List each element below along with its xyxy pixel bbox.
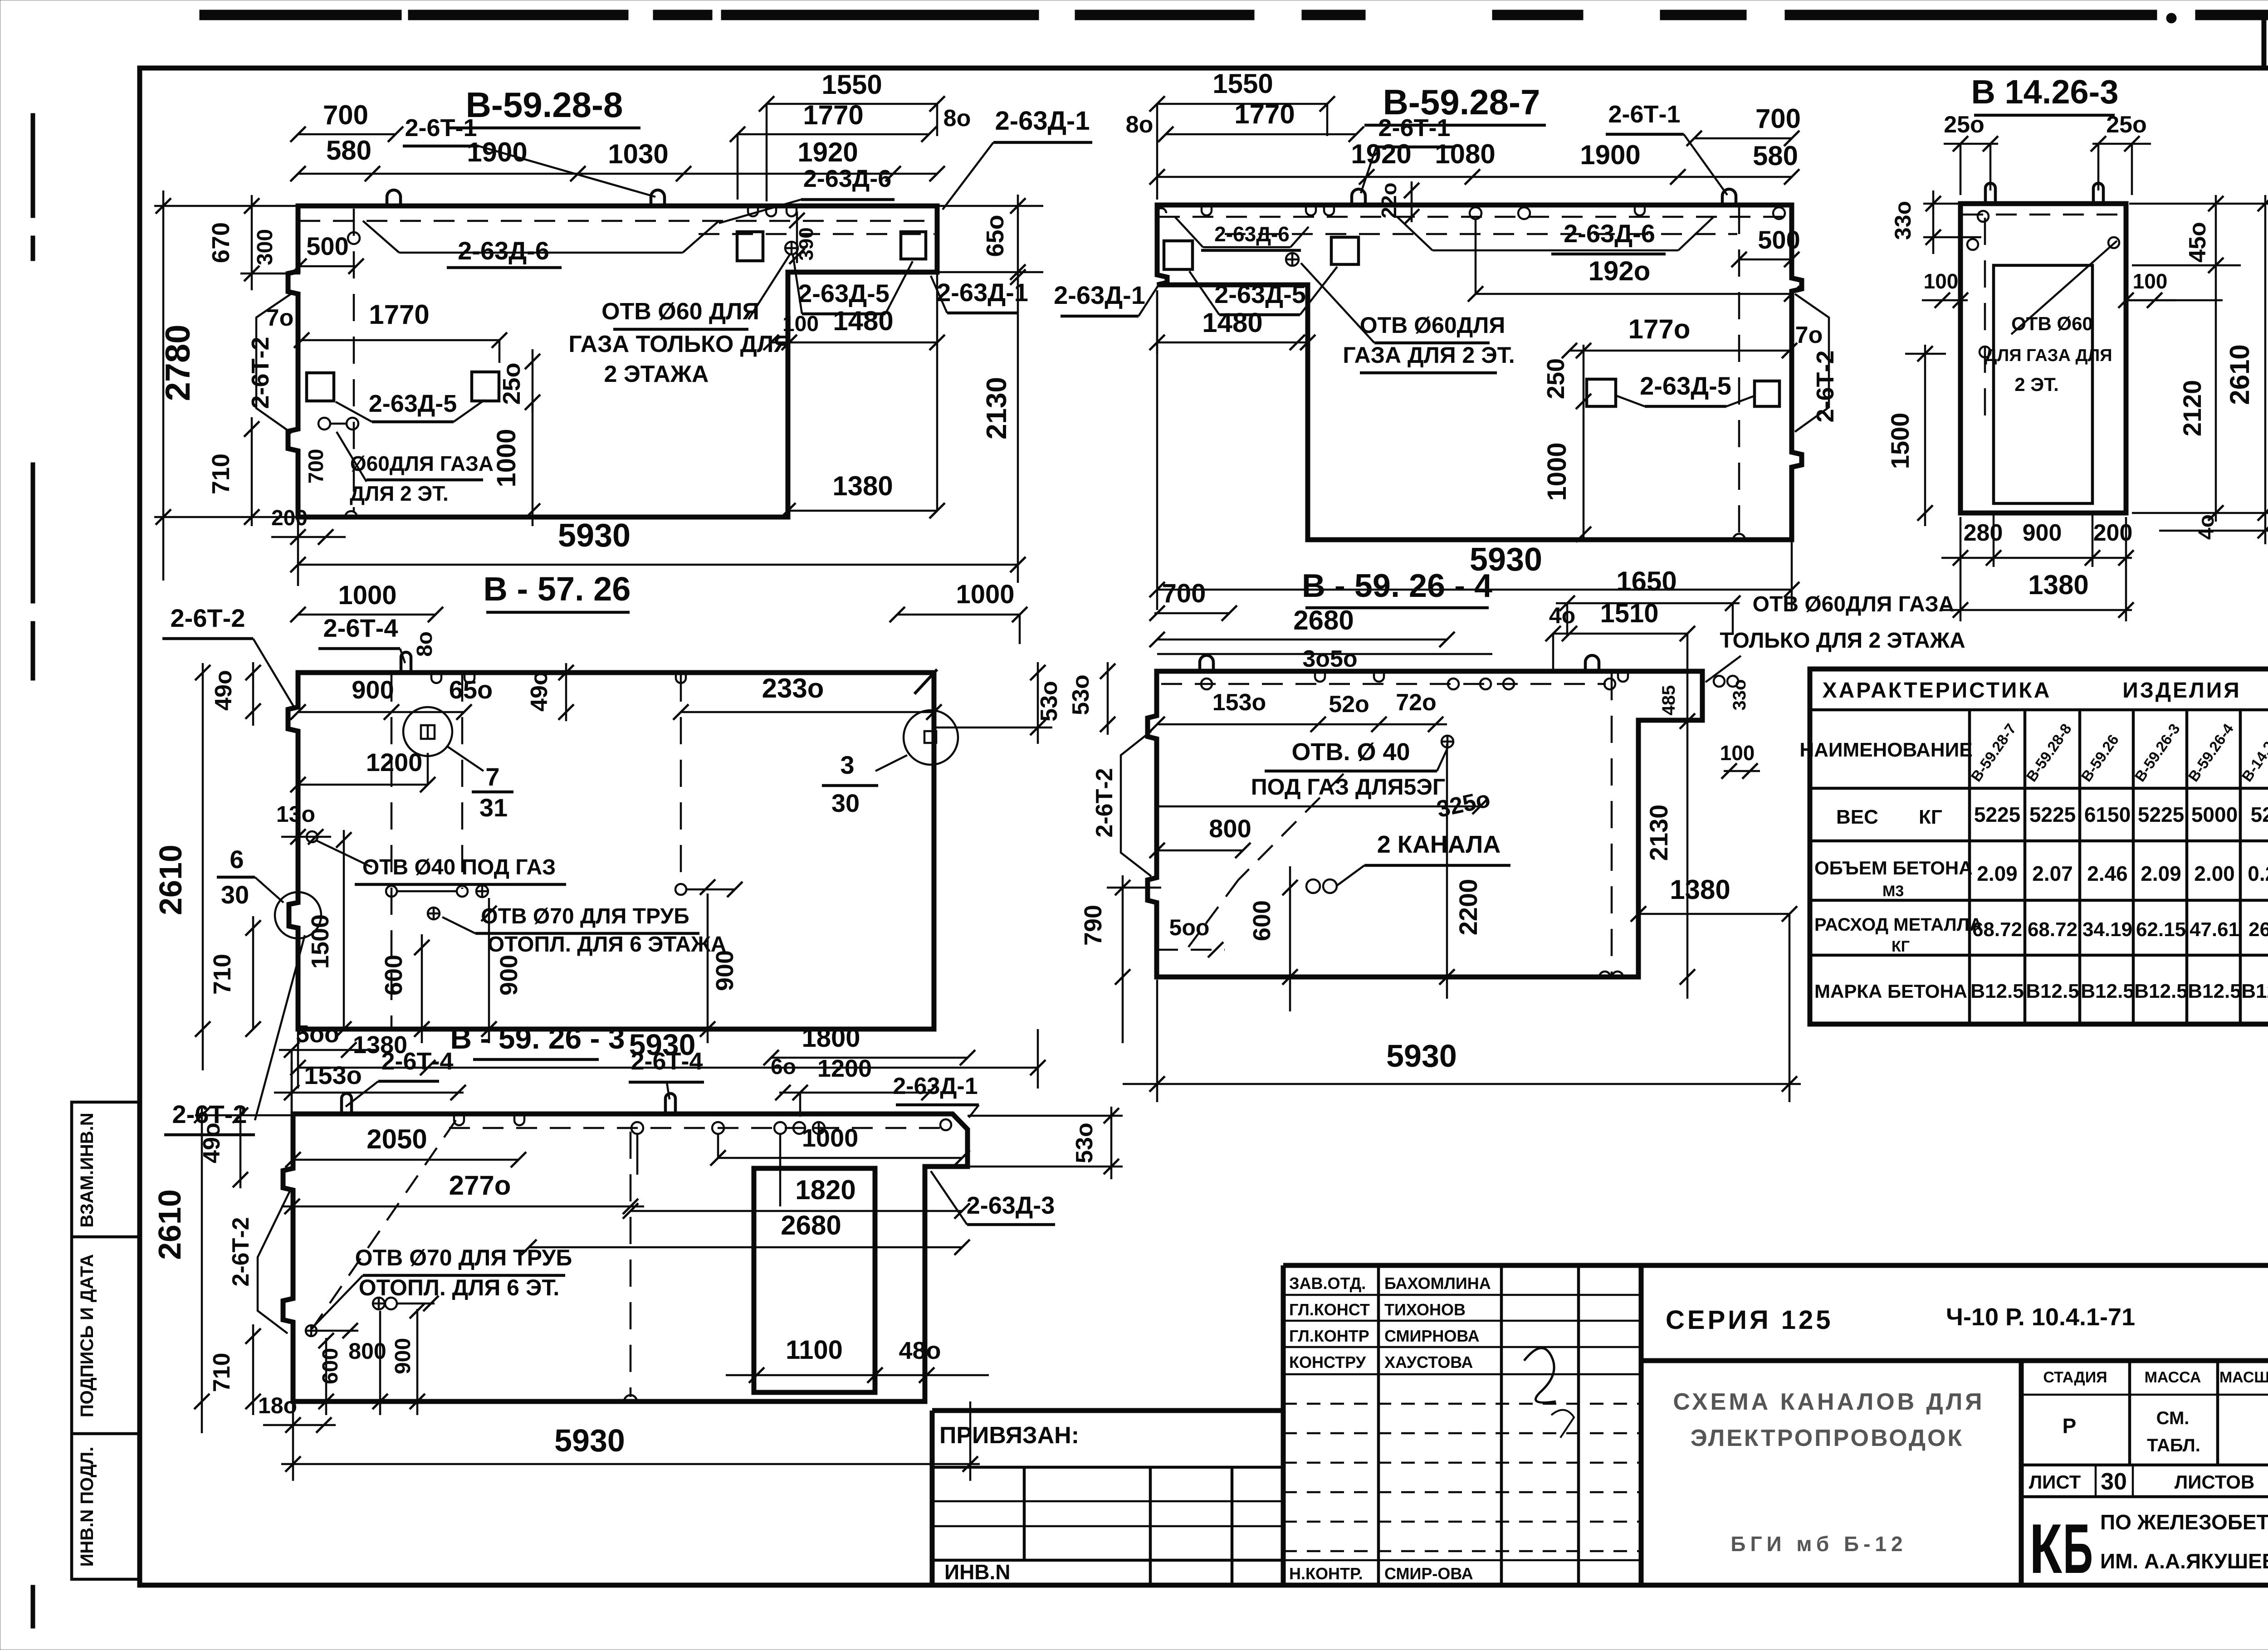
svg-text:В - 59. 26 - 4: В - 59. 26 - 4: [1302, 568, 1492, 604]
svg-text:НАИМЕНОВАНИЕ: НАИМЕНОВАНИЕ: [1799, 739, 1972, 761]
svg-text:2-63Д-5: 2-63Д-5: [1640, 371, 1731, 400]
dim 5930 p6: [281, 1463, 980, 1465]
panel5 dashed vertical: [1611, 673, 1613, 975]
svg-text:ИМ. А.А.ЯКУШЕВА: ИМ. А.А.ЯКУШЕВА: [2100, 1549, 2268, 1573]
svg-text:900: 900: [352, 675, 394, 704]
svg-text:250: 250: [1542, 358, 1569, 399]
svg-text:ЗАВ.ОТД.: ЗАВ.ОТД.: [1289, 1274, 1366, 1293]
dim 1820 p6: [631, 1210, 962, 1212]
square hole 2: [472, 372, 499, 401]
rotated 710 p4: [252, 916, 254, 1029]
panel6 circles on axis: [631, 1122, 643, 1134]
svg-text:22o: 22o: [1377, 182, 1401, 218]
panel3 dashed vertical: [1984, 218, 1986, 429]
rotated 2130 p5: [1686, 717, 1689, 999]
panel3 inner opening: [1994, 265, 2092, 503]
svg-text:СЕРИЯ 125: СЕРИЯ 125: [1666, 1305, 1833, 1335]
left dim 2780: [154, 205, 299, 207]
svg-text:2-6Т-4: 2-6Т-4: [323, 614, 398, 642]
svg-text:670: 670: [207, 222, 235, 263]
svg-text:500: 500: [306, 232, 348, 260]
panel5 half circles bottom: [1599, 971, 1610, 977]
svg-text:ХАУСТОВА: ХАУСТОВА: [1384, 1353, 1473, 1372]
square hole 1: [307, 373, 334, 401]
svg-text:1000: 1000: [802, 1123, 859, 1152]
dim 250 left p3: [1944, 143, 1998, 145]
panel2 dashed axis: [1159, 216, 1789, 218]
svg-text:1770: 1770: [803, 100, 863, 130]
svg-text:ТИХОНОВ: ТИХОНОВ: [1384, 1300, 1466, 1319]
panel5 hooks: [1200, 655, 1213, 671]
svg-text:65o: 65o: [982, 215, 1009, 257]
svg-text:62.15: 62.15: [2136, 918, 2186, 941]
panel4 outline: [288, 673, 934, 1029]
svg-text:13o: 13o: [276, 801, 315, 827]
rotated 530 p6: [968, 1115, 1123, 1117]
svg-text:МАССА: МАССА: [2145, 1369, 2201, 1386]
panel2 hooks: [1352, 189, 1365, 205]
bracket 2-6Т-2 right: [1795, 294, 1829, 432]
dim 100 left p3: [1922, 299, 1968, 302]
dim 1480 p2: [1157, 342, 1308, 344]
dim 100 right p3: [2126, 299, 2175, 302]
panel2 trapezoid big: [1397, 217, 1432, 250]
rotated 2610 p4: [202, 663, 204, 1070]
svg-text:2780: 2780: [159, 324, 197, 401]
circles p4: [307, 831, 318, 842]
dim 800 p5: [1157, 849, 1243, 852]
svg-text:900: 900: [2023, 520, 2062, 546]
svg-text:1480: 1480: [833, 306, 893, 336]
circles p5 mid: [1306, 879, 1320, 893]
svg-text:47.61: 47.61: [2190, 918, 2239, 941]
panel3 circles: [1978, 211, 1989, 222]
svg-text:33o: 33o: [1890, 201, 1916, 240]
svg-text:25o: 25o: [2106, 112, 2147, 138]
panel3 hooks: [1985, 183, 1995, 204]
svg-text:8o: 8o: [1126, 112, 1154, 138]
signature scribble: [1524, 1348, 1556, 1402]
left margin stamp column: [72, 1102, 140, 1579]
circle hole right: [785, 242, 798, 254]
svg-text:В12.5: В12.5: [1970, 980, 2024, 1002]
svg-text:1770: 1770: [1234, 99, 1295, 129]
svg-text:В - 59. 26 - 3: В - 59. 26 - 3: [450, 1021, 625, 1055]
svg-text:525: 525: [2251, 803, 2268, 826]
svg-text:1900: 1900: [1580, 140, 1640, 170]
svg-text:600: 600: [318, 1348, 342, 1384]
dim 2680 p6: [529, 1246, 962, 1249]
circles pair lower left: [318, 418, 330, 430]
characteristics table frame: [1810, 669, 2268, 1024]
svg-text:2-63Д-6: 2-63Д-6: [803, 165, 892, 192]
svg-text:Р: Р: [2063, 1414, 2077, 1438]
svg-text:В-59.28-8: В-59.28-8: [466, 85, 623, 125]
svg-text:К: К: [2029, 1509, 2062, 1588]
lifting hook mid: [651, 190, 665, 206]
svg-text:34.19: 34.19: [2082, 918, 2132, 941]
svg-text:МАСШТАБ: МАСШТАБ: [2219, 1369, 2268, 1386]
svg-text:ТАБЛ.: ТАБЛ.: [2147, 1435, 2200, 1455]
mini table stadiya massa masshtab: [2019, 1361, 2024, 1585]
svg-text:ХАРАКТЕРИСТИКА: ХАРАКТЕРИСТИКА: [1823, 679, 2052, 703]
svg-text:2-63Д-1: 2-63Д-1: [1054, 281, 1145, 309]
dim 5930 p4: [428, 1067, 1039, 1069]
svg-text:В 14.26-3: В 14.26-3: [1971, 73, 2119, 111]
svg-text:2-6Т-2: 2-6Т-2: [171, 604, 245, 632]
svg-text:2 КАНАЛА: 2 КАНАЛА: [1377, 831, 1501, 858]
svg-text:2680: 2680: [781, 1210, 841, 1240]
rotated 490 p4 mid: [565, 663, 567, 721]
svg-text:1500: 1500: [307, 914, 334, 969]
svg-text:72o: 72o: [1396, 689, 1437, 716]
svg-text:1030: 1030: [608, 139, 668, 169]
svg-text:2-6Т-2: 2-6Т-2: [247, 337, 274, 409]
panel5 dashed top row: [1161, 683, 1606, 685]
svg-text:ОТОПЛ. ДЛЯ 6 ЭТ.: ОТОПЛ. ДЛЯ 6 ЭТ.: [359, 1275, 559, 1300]
scan dot: [2166, 13, 2176, 23]
svg-text:53o: 53o: [1071, 1123, 1098, 1163]
svg-text:ОТВ Ø60 ДЛЯ: ОТВ Ø60 ДЛЯ: [601, 298, 759, 325]
svg-text:233o: 233o: [762, 673, 824, 703]
svg-text:ПОДПИСЬ И ДАТА: ПОДПИСЬ И ДАТА: [77, 1254, 97, 1417]
rotated 600 p6: [325, 1338, 327, 1415]
dim 1770 p2: [1166, 133, 1356, 136]
svg-text:В - 57. 26: В - 57. 26: [484, 570, 631, 608]
dim 1000 rotated: [532, 402, 534, 526]
svg-text:ГАЗА ТОЛЬКО ДЛЯ: ГАЗА ТОЛЬКО ДЛЯ: [568, 331, 790, 357]
svg-text:1920: 1920: [797, 137, 858, 167]
svg-text:4o: 4o: [2195, 514, 2219, 540]
panel3 diagonal: [2011, 241, 2117, 334]
dim 1800 p6: [771, 1057, 968, 1059]
svg-text:5930: 5930: [558, 517, 631, 554]
panel4 hooks: [401, 652, 411, 673]
dim 250 right p3: [2092, 143, 2151, 145]
panel6 dashed diagonal: [312, 1120, 456, 1329]
svg-text:ДЛЯ ГАЗА ДЛЯ: ДЛЯ ГАЗА ДЛЯ: [1984, 346, 2112, 365]
svg-text:ИНВ.N ПОДЛ.: ИНВ.N ПОДЛ.: [77, 1447, 97, 1567]
svg-text:5000: 5000: [2191, 803, 2238, 826]
panel6 dash-dot vertical: [630, 1132, 632, 1397]
dim 1920 interior: [1475, 220, 1477, 294]
svg-text:1650: 1650: [1616, 566, 1677, 596]
svg-text:ПО ЖЕЛЕЗОБЕТОНУ: ПО ЖЕЛЕЗОБЕТОНУ: [2100, 1510, 2268, 1534]
dim 250 rotated: [532, 349, 534, 413]
svg-text:В12.5: В12.5: [2241, 980, 2268, 1002]
dim 1000 p4 right: [897, 614, 1020, 616]
svg-text:Б: Б: [2063, 1509, 2093, 1588]
svg-text:153o: 153o: [1212, 689, 1266, 716]
dim 700: [298, 133, 396, 136]
dim 1530 520 720 p5: [1157, 723, 1447, 726]
svg-text:2-63Д-1: 2-63Д-1: [937, 278, 1028, 307]
rotated 600 p5: [1289, 866, 1291, 1011]
svg-text:300: 300: [253, 229, 277, 265]
svg-text:580: 580: [326, 135, 371, 166]
rotated 900 p4 a: [488, 898, 490, 1043]
svg-text:700: 700: [304, 449, 327, 484]
rotated 490 p4 left: [252, 662, 254, 726]
dim 650 rotated: [1017, 195, 1019, 277]
svg-text:5930: 5930: [1386, 1038, 1457, 1074]
svg-text:СМ.: СМ.: [2156, 1408, 2190, 1428]
dim 2610 rotated p3: [2132, 512, 2268, 514]
svg-text:53o: 53o: [1068, 674, 1094, 715]
svg-text:КГ: КГ: [1919, 806, 1942, 828]
svg-text:800: 800: [1209, 814, 1251, 843]
panel dashed axis line: [299, 220, 935, 222]
svg-text:1800: 1800: [802, 1023, 860, 1053]
rotated 1000 p2: [1583, 401, 1585, 540]
svg-text:3o5o: 3o5o: [1302, 646, 1357, 672]
svg-text:3: 3: [840, 751, 854, 779]
svg-text:В12.5: В12.5: [2188, 980, 2241, 1002]
svg-text:900: 900: [391, 1338, 415, 1374]
svg-text:СХЕМА КАНАЛОВ ДЛЯ: СХЕМА КАНАЛОВ ДЛЯ: [1673, 1389, 1984, 1415]
svg-text:2-6Т-1: 2-6Т-1: [1378, 114, 1450, 142]
panel2 circles: [1286, 253, 1299, 266]
svg-text:2200: 2200: [1454, 879, 1482, 936]
svg-text:1100: 1100: [786, 1335, 843, 1365]
svg-text:5225: 5225: [1974, 803, 2020, 826]
svg-text:ОТВ Ø60ДЛЯ: ОТВ Ø60ДЛЯ: [1360, 312, 1505, 338]
circle on axis: [348, 232, 360, 244]
panel2 half circles: [1733, 534, 1745, 540]
svg-text:2610: 2610: [152, 1189, 187, 1260]
svg-text:ОТВ Ø70 ДЛЯ ТРУБ: ОТВ Ø70 ДЛЯ ТРУБ: [355, 1245, 572, 1270]
svg-text:2-63Д-1: 2-63Д-1: [995, 106, 1090, 136]
panel2 trapezoid small: [1175, 217, 1203, 247]
svg-text:33o: 33o: [1730, 679, 1750, 711]
rotated 900 p4 b: [707, 893, 709, 1043]
dim 5930 p5: [1123, 1083, 1801, 1085]
svg-text:ИНВ.N: ИНВ.N: [944, 1560, 1011, 1584]
svg-text:100: 100: [1720, 741, 1755, 765]
svg-text:2-63Д-6: 2-63Д-6: [1564, 219, 1655, 248]
svg-text:Ø60ДЛЯ ГАЗА: Ø60ДЛЯ ГАЗА: [350, 452, 494, 475]
rotated 2610 p6: [201, 1107, 203, 1433]
names table columns: [1377, 1265, 1380, 1585]
svg-text:ВЕС: ВЕС: [1836, 806, 1878, 828]
rotated 600 p4: [421, 934, 423, 1043]
channel trapezoid 2-63Д-6: [363, 221, 399, 253]
dim 500 p6: [279, 1049, 376, 1051]
dashed leader p5: [1238, 774, 1344, 880]
svg-text:1000: 1000: [956, 580, 1014, 609]
svg-text:700: 700: [1755, 103, 1801, 134]
svg-text:5oo: 5oo: [296, 1020, 339, 1048]
svg-text:53o: 53o: [1036, 681, 1062, 722]
svg-text:49o: 49o: [210, 670, 237, 711]
svg-text:СМИРНОВА: СМИРНОВА: [1384, 1327, 1480, 1345]
left dim 710: [251, 417, 253, 526]
callout circle 7/31: [403, 707, 452, 756]
svg-text:СТАДИЯ: СТАДИЯ: [2043, 1369, 2107, 1386]
svg-text:100: 100: [2133, 269, 2168, 293]
svg-text:ТОЛЬКО ДЛЯ 2 ЭТАЖА: ТОЛЬКО ДЛЯ 2 ЭТАЖА: [1720, 629, 1965, 653]
svg-text:1000: 1000: [492, 429, 521, 487]
svg-text:7o: 7o: [1795, 322, 1823, 348]
svg-text:6150: 6150: [2084, 803, 2131, 826]
svg-text:600: 600: [380, 955, 407, 996]
rotated 900 p6: [416, 1309, 419, 1415]
svg-text:ГЛ.КОНСТ: ГЛ.КОНСТ: [1289, 1300, 1370, 1319]
dim 40 1510 p5: [1553, 633, 1687, 635]
panel4 dashed verticals: [391, 674, 393, 1027]
dim 1380 p3: [1941, 609, 2132, 611]
svg-text:580: 580: [1753, 141, 1798, 171]
svg-text:ОТВ Ø40 ПОД ГАЗ: ОТВ Ø40 ПОД ГАЗ: [362, 855, 556, 879]
svg-text:2-63Д-3: 2-63Д-3: [967, 1192, 1055, 1219]
U notches near right: [748, 206, 758, 216]
square hole 4: [901, 232, 926, 259]
svg-text:1200: 1200: [366, 748, 423, 776]
svg-text:2-63Д-5: 2-63Д-5: [369, 390, 457, 417]
svg-text:1080: 1080: [1435, 139, 1495, 169]
svg-text:ЭЛЕКТРОПРОВОДОК: ЭЛЕКТРОПРОВОДОК: [1691, 1425, 1964, 1451]
svg-text:2130: 2130: [981, 377, 1012, 439]
panel5 outline: [1148, 671, 1702, 977]
svg-text:Н.КОНТР.: Н.КОНТР.: [1289, 1564, 1363, 1583]
panel2 dashed vertical: [1738, 207, 1740, 535]
panel dashed axis line 2: [699, 233, 934, 235]
dim 1770 interior: [302, 339, 499, 342]
rotated 710 p6: [252, 1324, 254, 1415]
svg-text:2 ЭТ.: 2 ЭТ.: [2014, 374, 2059, 395]
svg-text:БАХОМЛИНА: БАХОМЛИНА: [1384, 1274, 1491, 1293]
lifting hook left: [387, 190, 401, 206]
panel3 outline: [1960, 204, 2126, 513]
svg-text:ЛИСТ: ЛИСТ: [2029, 1471, 2081, 1493]
dim 100 1480: [770, 342, 937, 344]
svg-text:1550: 1550: [1212, 68, 1273, 99]
svg-text:18o: 18o: [258, 1393, 297, 1418]
svg-text:2-63Д-5: 2-63Д-5: [1214, 280, 1306, 308]
svg-text:2-6Т-2: 2-6Т-2: [1091, 768, 1118, 837]
circles p6: [306, 1325, 317, 1336]
panel6 dashed axis: [449, 1127, 953, 1129]
panel5 circles top: [1201, 679, 1212, 689]
bracket 2-6Т-2 p6: [258, 1190, 290, 1333]
panel2 dashed axis 2: [1225, 233, 1737, 235]
svg-text:ОТВ Ø70 ДЛЯ ТРУБ: ОТВ Ø70 ДЛЯ ТРУБ: [481, 904, 689, 928]
svg-text:М3: М3: [1882, 883, 1904, 900]
rotated 490 p6: [240, 1107, 242, 1188]
svg-text:2610: 2610: [153, 845, 188, 915]
svg-text:5225: 5225: [2029, 803, 2076, 826]
left fold line dashes: [31, 113, 35, 218]
dim row 580 1900 1030 1920: [298, 173, 937, 175]
svg-text:ПОД ГАЗ ДЛЯ5ЭГ: ПОД ГАЗ ДЛЯ5ЭГ: [1251, 774, 1446, 800]
rotated 530 p4 right: [934, 727, 1052, 729]
dim 2680 p5: [1157, 639, 1447, 641]
svg-text:1480: 1480: [1202, 308, 1262, 338]
svg-text:5225: 5225: [2138, 803, 2184, 826]
dim 5930 p2: [1156, 290, 1158, 610]
dim 1530 p6: [274, 1092, 464, 1094]
svg-text:700: 700: [1162, 579, 1206, 608]
svg-text:2-6Т-4: 2-6Т-4: [381, 1048, 453, 1075]
svg-text:1550: 1550: [821, 69, 882, 100]
svg-text:100: 100: [1924, 269, 1959, 293]
svg-text:2 ЭТАЖА: 2 ЭТАЖА: [604, 361, 709, 387]
dim 1200 p4: [298, 784, 428, 786]
dim row 1920 1080 1900 580: [1157, 176, 1792, 178]
dim 1100 480 p6: [726, 1374, 989, 1377]
svg-text:ЛИСТОВ: ЛИСТОВ: [2175, 1471, 2255, 1493]
panel6 outline: [283, 1114, 968, 1401]
dim 700 p2: [1694, 137, 1792, 140]
svg-text:280: 280: [1964, 520, 2003, 546]
svg-text:ВЗАМ.ИНВ.N: ВЗАМ.ИНВ.N: [77, 1113, 97, 1227]
svg-text:2.46: 2.46: [2087, 862, 2128, 885]
dim 2050 p6: [293, 1159, 518, 1161]
svg-text:2120: 2120: [2178, 380, 2206, 437]
svg-text:65o: 65o: [449, 675, 493, 704]
dim 1550 p2: [1157, 103, 1327, 105]
svg-text:ОТОПЛ. ДЛЯ 6 ЭТАЖА: ОТОПЛ. ДЛЯ 6 ЭТАЖА: [488, 932, 727, 957]
table row lines: [1810, 840, 2268, 843]
svg-text:790: 790: [1080, 905, 1107, 946]
callout circle 3/30: [904, 710, 958, 765]
svg-text:2-63Д-5: 2-63Д-5: [798, 279, 890, 308]
svg-text:277o: 277o: [449, 1170, 511, 1201]
svg-text:2-6Т-1: 2-6Т-1: [1608, 101, 1680, 128]
svg-text:В12.5: В12.5: [2026, 980, 2079, 1002]
svg-text:1380: 1380: [832, 471, 893, 501]
panel6 inner opening: [754, 1168, 875, 1392]
svg-text:177o: 177o: [1628, 314, 1691, 344]
rotated 530 p5: [1107, 662, 1109, 735]
svg-text:500: 500: [1758, 225, 1800, 254]
panel dashed vertical 500 line: [353, 209, 355, 513]
sheet number box 31: [2264, 14, 2268, 68]
svg-text:1200: 1200: [817, 1055, 872, 1082]
svg-text:ИЗДЕЛИЯ: ИЗДЕЛИЯ: [2122, 679, 2241, 703]
svg-text:1000: 1000: [338, 581, 396, 610]
dim 900 650 p4: [298, 711, 464, 713]
bracket 2-6Т-2 left: [256, 293, 292, 433]
svg-text:2.09: 2.09: [2141, 862, 2181, 885]
svg-text:МАРКА БЕТОНА: МАРКА БЕТОНА: [1814, 981, 1967, 1002]
svg-text:2-6Т-4: 2-6Т-4: [631, 1048, 703, 1075]
svg-text:68.72: 68.72: [1972, 918, 2022, 941]
svg-text:РАСХОД МЕТАЛЛА: РАСХОД МЕТАЛЛА: [1814, 915, 1983, 935]
svg-text:2.00: 2.00: [2194, 862, 2235, 885]
svg-text:710: 710: [207, 454, 235, 494]
svg-text:2.07: 2.07: [2032, 862, 2073, 885]
dim 3050 row p5: [1157, 653, 1492, 655]
left dim 670: [240, 273, 300, 275]
dim 1380: [788, 510, 937, 512]
svg-text:1820: 1820: [795, 1175, 855, 1205]
svg-text:31: 31: [479, 793, 508, 822]
svg-text:1000: 1000: [1542, 442, 1572, 501]
panel6 hooks: [342, 1093, 352, 1114]
svg-text:1900: 1900: [467, 137, 527, 167]
dim 1380 p4: [298, 1067, 428, 1069]
title block outer: [1283, 1263, 2268, 1268]
dim 280 900 200 p3: [1941, 557, 2132, 559]
dim 1650 between: [1556, 602, 1740, 605]
svg-text:2.09: 2.09: [1977, 862, 2018, 885]
dim 330 rotated p3: [1923, 203, 1964, 205]
svg-text:В12.5: В12.5: [2081, 980, 2134, 1002]
privyazan block: [932, 1408, 1283, 1413]
dim 2770 p6: [281, 1206, 644, 1208]
svg-text:ОТВ. Ø 40: ОТВ. Ø 40: [1291, 738, 1410, 766]
